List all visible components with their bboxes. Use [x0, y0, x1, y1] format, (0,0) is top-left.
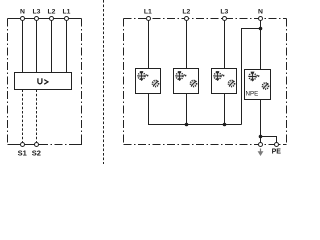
terminal L1 left	[65, 17, 69, 21]
svg-text:PE: PE	[272, 149, 282, 156]
terminal N left	[21, 17, 25, 21]
wire L3 arrester down	[224, 19, 226, 69]
wire N arrester down	[260, 19, 262, 70]
right device dash-dot right border	[286, 19, 288, 145]
terminal PE ground	[259, 143, 263, 147]
left device dash-dot bottom border	[42, 144, 78, 146]
terminal L2 right	[185, 17, 189, 21]
ground arrow below PE	[258, 149, 264, 157]
wire N down	[22, 19, 24, 73]
dashed separator line	[103, 0, 105, 164]
svg-text:L2: L2	[48, 9, 56, 16]
wire L2 output	[186, 94, 188, 125]
terminal N right	[259, 17, 263, 21]
terminal L1 right	[147, 17, 151, 21]
left device dash-dot right border	[81, 19, 83, 141]
voltage monitor box U>	[15, 73, 72, 90]
right device dash-dot top border	[124, 18, 287, 20]
surge arrester F3 box	[212, 69, 237, 94]
terminal PE	[275, 143, 279, 147]
svg-text:L3: L3	[220, 9, 228, 16]
svg-text:S1: S1	[18, 149, 27, 158]
svg-text:L1: L1	[144, 9, 152, 16]
terminal L3 left	[35, 17, 39, 21]
junction PE split	[259, 135, 263, 139]
terminal S2	[35, 143, 39, 147]
terminal L3 right	[223, 17, 227, 21]
right device dash-dot left border	[123, 19, 125, 145]
svg-text:L1: L1	[63, 9, 71, 16]
wire S2 dashed	[36, 90, 38, 143]
junction N jog	[259, 27, 263, 31]
wire L3 output	[224, 94, 226, 125]
wire L3 down	[36, 19, 38, 73]
spark gap symbol NPE	[249, 72, 260, 82]
label U> drawn as vector glyphs	[38, 78, 48, 84]
junction bus L3	[223, 123, 227, 127]
terminal L2 left	[50, 17, 54, 21]
surge arrester F1 box	[136, 69, 161, 94]
svg-text:N: N	[258, 9, 263, 16]
surge arrester F2 box	[174, 69, 199, 94]
svg-text:L3: L3	[33, 9, 41, 16]
wire L2 down	[51, 19, 53, 73]
svg-text:L2: L2	[182, 9, 190, 16]
spark gap symbol F3	[214, 71, 225, 81]
wire S1 dashed	[22, 90, 24, 143]
spark gap symbol F1	[138, 71, 149, 81]
svg-text:N: N	[20, 9, 25, 16]
left device bottom-right corner	[76, 139, 82, 145]
wire N jog to bus	[242, 29, 261, 125]
wire PE branch	[261, 137, 277, 145]
left device dash-dot left border	[7, 19, 9, 145]
spark gap symbol F2	[176, 71, 187, 81]
svg-text:NPE: NPE	[246, 91, 259, 98]
left device bottom solid segment with S1 S2 terminals	[8, 144, 42, 146]
wire L2 arrester down	[186, 19, 188, 69]
junction bus L2	[185, 123, 189, 127]
wire output bus	[149, 94, 242, 125]
wire L1 arrester down	[148, 19, 150, 69]
wire top bus left device	[8, 18, 82, 20]
terminal S1	[21, 143, 25, 147]
surge arrester NPE box	[245, 70, 271, 100]
svg-text:S2: S2	[32, 149, 41, 158]
wire L1 down	[66, 19, 68, 73]
wire NPE output to PE	[260, 100, 262, 145]
right device dash-dot bottom border	[124, 144, 287, 146]
